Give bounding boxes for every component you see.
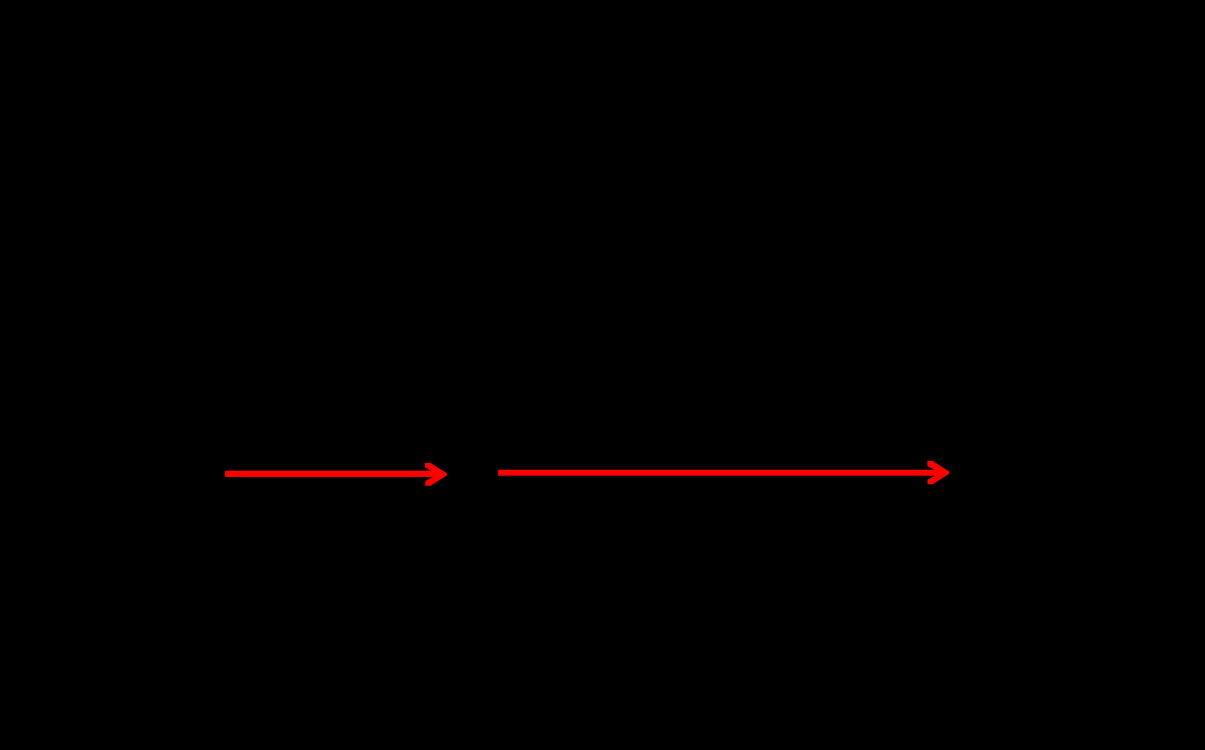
reaction arrow 1 head	[425, 463, 447, 486]
reaction arrow 2 head	[927, 461, 949, 484]
reaction arrow 1 shaft (wire)	[225, 471, 441, 477]
reaction arrow 2 shaft (wire)	[498, 470, 943, 476]
